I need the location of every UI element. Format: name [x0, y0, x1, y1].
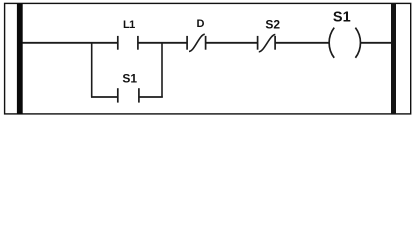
svg-text:D: D	[197, 18, 205, 30]
svg-text:S1: S1	[333, 9, 351, 25]
svg-text:S1: S1	[122, 72, 137, 86]
svg-text:S2: S2	[265, 18, 280, 32]
svg-text:L1: L1	[123, 19, 135, 31]
